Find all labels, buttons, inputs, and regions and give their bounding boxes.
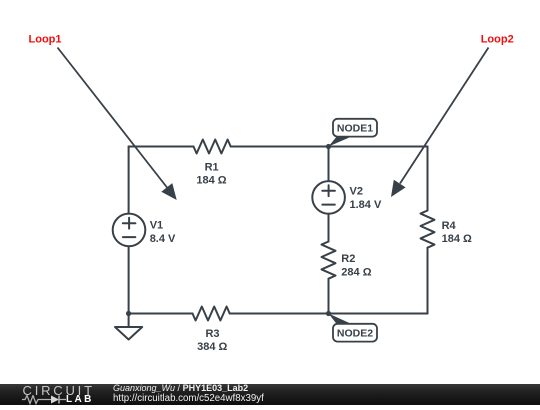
wire top-left segment — [129, 146, 194, 148]
wire left lower segment — [128, 246, 130, 313]
svg-text:184 Ω: 184 Ω — [442, 233, 472, 245]
wire top-right segment — [231, 146, 428, 148]
wire middle between V2 and R2 — [328, 214, 330, 242]
svg-text:R3: R3 — [205, 328, 219, 340]
svg-text:R1: R1 — [205, 161, 219, 173]
svg-text:NODE2: NODE2 — [337, 328, 373, 340]
svg-text:V1: V1 — [150, 220, 163, 232]
resistor R3 — [193, 307, 230, 321]
annotation Loop2 — [391, 33, 514, 197]
footer bar — [0, 384, 540, 405]
annotation Loop1 — [29, 33, 177, 200]
node NODE2 — [329, 314, 378, 342]
svg-text:Loop1: Loop1 — [29, 33, 62, 45]
svg-text:R2: R2 — [341, 253, 355, 265]
label V1 value — [150, 220, 176, 245]
ground — [115, 314, 142, 340]
label R1 value — [196, 161, 226, 186]
footer logo CIRCUIT — [23, 386, 95, 395]
footer logo LAB — [66, 395, 94, 405]
label R4 value — [442, 220, 472, 245]
svg-text:184 Ω: 184 Ω — [196, 174, 226, 186]
resistor R4 — [421, 211, 435, 248]
svg-text:R4: R4 — [442, 220, 457, 232]
voltage source V1 — [113, 214, 146, 247]
wire right upper segment — [427, 147, 429, 211]
footer logo squiggle — [20, 395, 68, 405]
voltage source V2 — [312, 181, 345, 214]
svg-text:Loop2: Loop2 — [481, 33, 514, 45]
node NODE1 — [329, 119, 378, 147]
svg-text:8.4 V: 8.4 V — [150, 233, 176, 245]
wire bottom-left segment — [129, 313, 193, 315]
svg-text:V2: V2 — [350, 186, 363, 198]
footer text — [113, 384, 264, 403]
junction dot at NODE1 — [326, 144, 331, 149]
wire bottom-right segment — [230, 313, 428, 315]
wire right lower segment — [427, 248, 429, 314]
svg-text:NODE1: NODE1 — [337, 123, 373, 135]
label R3 value — [197, 328, 227, 353]
svg-text:384 Ω: 384 Ω — [197, 341, 227, 353]
junction dot at NODE2 — [326, 311, 331, 316]
svg-text:1.84 V: 1.84 V — [350, 199, 382, 211]
wire left upper segment — [128, 147, 130, 214]
resistor R2 — [322, 242, 336, 279]
junction dot at ground corner — [126, 311, 131, 316]
label V2 value — [350, 186, 382, 211]
wire middle lower segment — [328, 279, 330, 314]
svg-text:284 Ω: 284 Ω — [341, 266, 371, 278]
wire middle upper segment — [328, 147, 330, 182]
resistor R1 — [194, 140, 231, 154]
label R2 value — [341, 253, 371, 278]
